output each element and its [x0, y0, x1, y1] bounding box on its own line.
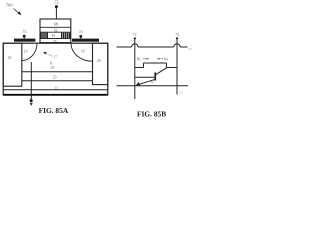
- svg-text:61: 61: [52, 34, 56, 38]
- svg-text:82: 82: [151, 80, 155, 84]
- svg-text:84: 84: [164, 57, 168, 61]
- svg-text:74: 74: [175, 33, 179, 37]
- svg-text:18: 18: [81, 49, 85, 53]
- svg-text:62: 62: [54, 29, 58, 33]
- svg-text:FIG. 85B: FIG. 85B: [137, 109, 166, 118]
- svg-text:70: 70: [188, 47, 192, 51]
- svg-text:74: 74: [79, 30, 83, 34]
- svg-text:19: 19: [50, 66, 54, 70]
- svg-text:58: 58: [53, 39, 57, 43]
- svg-text:26: 26: [97, 59, 101, 63]
- svg-text:700: 700: [6, 3, 14, 8]
- svg-text:72: 72: [133, 33, 137, 37]
- svg-text:12: 12: [54, 86, 58, 90]
- svg-text:21: 21: [179, 91, 183, 95]
- svg-text:14: 14: [24, 50, 28, 54]
- svg-text:68: 68: [54, 21, 58, 26]
- svg-text:17: 17: [53, 56, 57, 60]
- svg-text:26: 26: [8, 56, 12, 60]
- svg-text:73: 73: [23, 30, 27, 34]
- svg-text:72: 72: [55, 0, 59, 4]
- svg-text:23: 23: [53, 76, 57, 80]
- svg-text:FIG. 85A: FIG. 85A: [39, 106, 69, 115]
- svg-text:80: 80: [137, 57, 141, 61]
